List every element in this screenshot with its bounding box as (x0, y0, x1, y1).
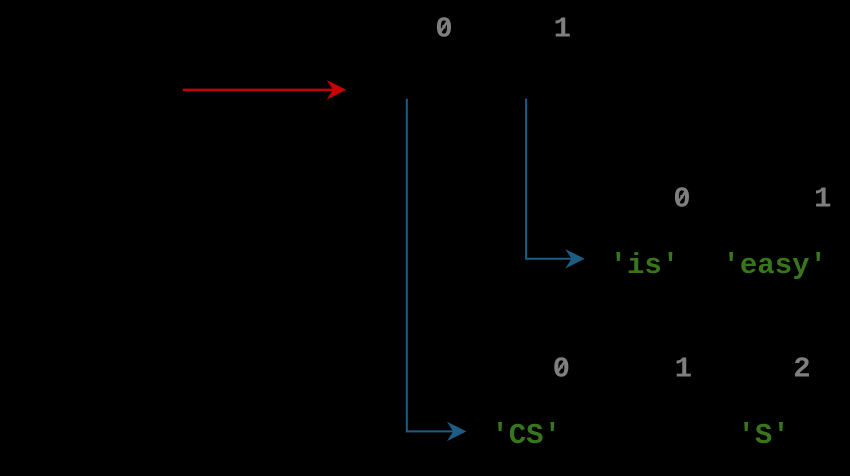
svg-text:'S': 'S' (737, 419, 789, 452)
svg-text:0: 0 (435, 12, 452, 45)
svg-text:1: 1 (814, 183, 831, 216)
svg-text:0: 0 (673, 183, 690, 216)
svg-text:1: 1 (675, 352, 692, 385)
svg-text:'is': 'is' (610, 249, 680, 282)
svg-text:'CS': 'CS' (491, 419, 561, 452)
svg-text:1: 1 (554, 12, 571, 45)
svg-text:'easy': 'easy' (722, 249, 826, 282)
svg-text:2: 2 (793, 352, 810, 385)
svg-text:0: 0 (553, 352, 570, 385)
